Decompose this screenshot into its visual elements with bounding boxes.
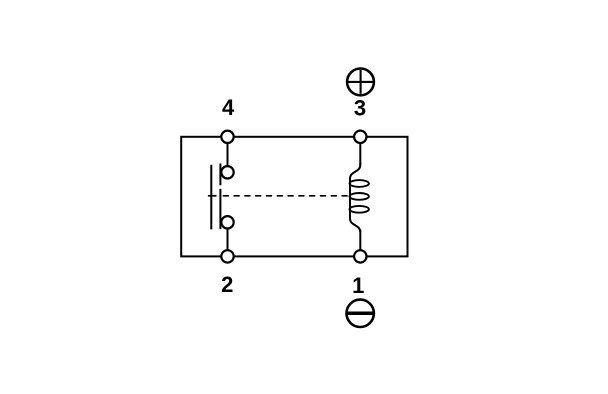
mechanical linkage dashed line — [223, 195, 351, 197]
battery negative symbol circle — [347, 300, 374, 327]
coil L1 loop 1 — [350, 180, 369, 187]
svg-text:2: 2 — [221, 272, 233, 297]
svg-text:3: 3 — [354, 96, 366, 121]
svg-text:4: 4 — [222, 95, 235, 120]
battery positive symbol plus horizontal stroke — [348, 81, 374, 83]
mechanical linkage first dash crossing switch bar — [208, 195, 217, 197]
battery negative symbol minus bar — [347, 311, 373, 315]
coil L1 loop 2 — [350, 193, 369, 200]
battery positive symbol circle — [347, 69, 374, 96]
wire switch bottom contact to terminal 2 — [227, 222, 229, 256]
terminal 3 node circle — [354, 131, 366, 143]
switch lower contact circle — [221, 216, 233, 228]
coil L1 body wire — [350, 163, 360, 232]
coil L1 loop 3 — [350, 206, 369, 213]
switch S1 fixed contact line lower segment — [219, 189, 221, 229]
wire terminal 4 to switch top contact — [227, 137, 229, 172]
wire coil bottom to terminal 1 — [359, 230, 361, 257]
relay body outline K1 — [181, 137, 407, 257]
switch S1 movable contact bar — [210, 165, 212, 230]
wire terminal 3 to coil top — [359, 137, 361, 165]
svg-text:1: 1 — [352, 273, 364, 298]
battery positive symbol plus vertical stroke — [360, 70, 362, 94]
terminal 2 node circle — [221, 250, 233, 262]
switch upper contact circle — [221, 166, 233, 178]
terminal 1 node circle — [354, 250, 366, 262]
terminal 4 node circle — [221, 131, 233, 143]
switch S1 fixed contact line upper segment — [219, 164, 221, 186]
